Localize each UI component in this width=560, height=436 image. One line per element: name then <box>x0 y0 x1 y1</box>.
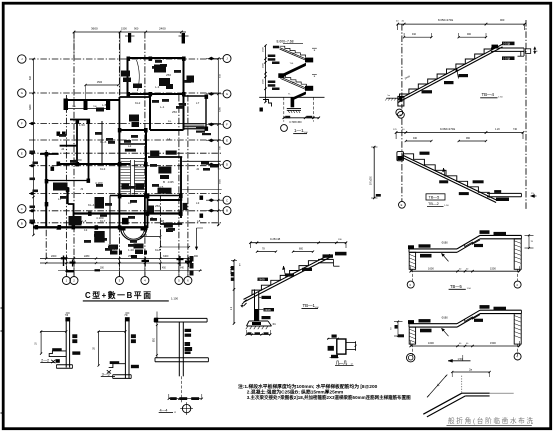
svg-text:1500: 1500 <box>263 78 265 84</box>
svg-text:1500: 1500 <box>263 46 265 52</box>
TB-1 footing hatch <box>246 326 248 329</box>
svg-text:L7: L7 <box>196 101 200 105</box>
svg-text:G: G <box>226 92 228 96</box>
Z-slab detail B left support <box>409 327 415 344</box>
column detail top dim <box>327 338 339 340</box>
Z-slab detail A right corner dim <box>528 235 530 249</box>
left axis circles <box>18 55 26 63</box>
section 4-4 top flange <box>154 317 207 319</box>
svg-text:KL-6: KL-6 <box>100 140 107 144</box>
TB-5 waist slab lines <box>402 155 496 200</box>
Z-slab detail B left corner dim <box>397 322 399 337</box>
TB-4 mid-flight rebar labels <box>459 74 469 77</box>
svg-text:1%: 1% <box>531 193 534 195</box>
Z-slab detail A leader arrow <box>442 253 449 261</box>
svg-text:740: 740 <box>513 128 518 131</box>
upper left small dim line <box>86 84 119 86</box>
plan bottom bold tick marks <box>61 257 67 259</box>
TB-1 sub dimensions <box>257 251 276 253</box>
svg-text:2280: 2280 <box>84 255 90 258</box>
Z-slab detail B right support <box>514 314 521 345</box>
section 3-3 bottom flange <box>113 374 132 376</box>
svg-text:注:1.梯段水平板梯厚度均为100mm; 水平梯梯板配筋均为: 注:1.梯段水平板梯厚度均为100mm; 水平梯梯板配筋均为 [8@200 <box>238 383 378 390</box>
svg-text:B: B <box>163 180 165 184</box>
svg-text:2Φ0B: 2Φ0B <box>265 309 272 312</box>
TB-1 landing rebar labels <box>323 254 334 257</box>
TB-5 rebar labels <box>420 152 430 155</box>
section 3-3 left dimension <box>98 331 126 333</box>
svg-text:0.28×48: 0.28×48 <box>270 237 281 241</box>
svg-text:1500: 1500 <box>490 341 496 345</box>
svg-text:TB—4: TB—4 <box>482 92 495 97</box>
TB-5 top axis circle <box>398 111 405 118</box>
Z-slab detail B slope <box>457 310 480 324</box>
section 1-1 left label blobs <box>268 55 276 58</box>
section 2-2 X tick mark <box>51 360 55 363</box>
plan columns (black blobs) <box>127 57 131 61</box>
svg-text:2—2: 2—2 <box>41 358 49 362</box>
TB-4 top landing slab <box>491 47 524 49</box>
svg-text:7Φ: 7Φ <box>124 314 127 317</box>
left wing sub dimension line <box>65 108 110 110</box>
svg-text:1500: 1500 <box>121 27 127 31</box>
svg-text:3280: 3280 <box>220 106 222 112</box>
section 4-4 middle flange <box>155 357 208 359</box>
lower-left big label clusters <box>69 216 82 226</box>
section 2-2 right labels <box>72 334 77 338</box>
svg-text:B: B <box>21 222 23 226</box>
svg-text:E: E <box>226 139 228 143</box>
top dimension line of plan <box>74 31 186 33</box>
svg-text:G: G <box>21 91 23 95</box>
section 3-3 X tick mark <box>107 370 111 373</box>
section 1-1 flight C slab lines <box>280 77 306 88</box>
svg-text:L-8: L-8 <box>82 219 87 223</box>
floor plan axis grid - vertical dash-dot lines <box>45 150 47 258</box>
left border small ticks <box>1 307 4 309</box>
Z-slab detail B slope steps <box>457 315 480 324</box>
column section detail square <box>337 339 346 354</box>
section 3-3 wall <box>124 321 126 379</box>
svg-text:970x250: 970x250 <box>371 175 373 185</box>
plan right dimension line <box>217 58 219 226</box>
svg-text:4—4: 4—4 <box>160 408 168 412</box>
Z-slab detail A axis circle 4 <box>514 281 521 288</box>
bay window arc at plan bottom <box>121 228 147 240</box>
Z-slab detail B left end block <box>408 320 414 324</box>
Z-slab detail A left slab <box>409 248 457 250</box>
TB-1 wall side labels <box>262 296 272 299</box>
Z-slab detail B bottom axis circle 4 <box>514 353 521 360</box>
svg-text:C: C <box>226 198 228 202</box>
bent bar detail vertical dashed <box>461 376 463 394</box>
column detail bottom label <box>331 355 338 358</box>
TB-5 right slope mark <box>531 195 537 197</box>
TB-4 landing rebar label <box>502 42 515 46</box>
upper wing big label clusters <box>154 65 166 73</box>
svg-text:800: 800 <box>299 248 304 251</box>
Z-slab detail A rebar labels <box>480 230 490 234</box>
Z-slab detail A support dashed axes <box>411 269 413 281</box>
door swing arc in upper wing <box>137 60 140 91</box>
column detail right ties <box>346 342 356 344</box>
svg-text:几—几: 几—几 <box>336 360 348 365</box>
svg-text:3280: 3280 <box>29 104 32 110</box>
section 4-4 left dimension <box>156 322 158 358</box>
TB-4 stair steps <box>400 49 494 99</box>
Z-slab detail A slope steps <box>457 240 480 249</box>
section 1-1 left dimension line <box>265 46 267 103</box>
section 1-1 flight D (thick short) <box>293 92 306 100</box>
section 1-1 flight A slab lines <box>280 48 306 59</box>
svg-text:D: D <box>226 163 228 167</box>
Z-slab detail A bottom dimension <box>411 270 520 272</box>
stair upper landing room wall <box>119 143 146 145</box>
svg-text:1.20: 1.20 <box>128 248 134 252</box>
section 4-4 web <box>178 322 180 376</box>
wall - left wing horizontals <box>70 119 90 121</box>
svg-text:B50: B50 <box>154 337 156 342</box>
TB-5 left vertical dimension line <box>373 147 375 198</box>
TB-1 top landing <box>318 258 334 260</box>
section 1-1 footing <box>287 108 301 110</box>
TB-5 bottom slab <box>487 192 521 194</box>
Z-slab detail B bottom axis circle 1 (double) <box>407 354 415 362</box>
plan right label clusters <box>196 127 205 129</box>
wall - right extension room <box>184 96 207 129</box>
Z-slab detail B bottom dimension <box>411 345 520 347</box>
svg-text:13: 13 <box>84 228 88 232</box>
section 1-1 axis circle <box>281 125 288 132</box>
Z-slab detail B right slab <box>480 309 521 311</box>
svg-text:E: E <box>401 203 403 207</box>
svg-text:J2: J2 <box>196 167 200 171</box>
svg-text:900: 900 <box>500 18 505 22</box>
wall - below-bay room side <box>109 196 111 245</box>
TB-5 sub dimension lines <box>406 140 432 142</box>
section 2-2 step profile <box>49 351 66 357</box>
section 1-1 ground line <box>259 96 324 98</box>
plan bottom dimension lines <box>40 258 192 260</box>
TB-1 mid leader arrow <box>284 266 286 276</box>
svg-text:1500: 1500 <box>490 266 496 270</box>
section 2-2 bottom flange <box>56 364 72 366</box>
stair flight bottom dark blobs <box>121 183 129 189</box>
svg-text:960: 960 <box>466 137 471 140</box>
TB-4 sub dimension lines <box>404 36 431 38</box>
svg-text:3-16@: 3-16@ <box>503 43 511 46</box>
svg-text:B: B <box>226 209 228 213</box>
TB-1 top dimension line <box>250 242 346 244</box>
svg-text:1600: 1600 <box>428 266 434 270</box>
svg-text:2a: 2a <box>469 367 473 371</box>
svg-text:L-3: L-3 <box>155 85 160 89</box>
svg-text:4.005: 4.005 <box>168 181 175 184</box>
svg-text:3—3: 3—3 <box>102 372 110 376</box>
TB-1 wall below flight <box>254 289 256 321</box>
svg-text:2400: 2400 <box>159 27 166 31</box>
svg-text:1500: 1500 <box>97 81 103 84</box>
wall - between left wing and stair core <box>119 96 150 98</box>
svg-text:L2: L2 <box>128 144 132 148</box>
section 1-1 flight C steps <box>280 75 306 86</box>
svg-text:Φ: Φ <box>536 50 538 53</box>
TB-1 footing <box>249 320 268 322</box>
svg-text:Φ1B0: Φ1B0 <box>442 242 449 245</box>
section 1-1 flight B (thick, down-left) <box>280 63 305 78</box>
wall - upper wing partition <box>149 94 151 130</box>
TB-4 axis circle <box>396 109 403 116</box>
svg-text:KL2: KL2 <box>135 101 141 105</box>
svg-text:634: 634 <box>29 75 32 80</box>
TB-4 waist slab lines <box>398 44 503 100</box>
svg-text:J3: J3 <box>80 187 84 191</box>
section 4-4 lower web dashed <box>180 376 182 403</box>
svg-text:TB—2: TB—2 <box>428 202 439 206</box>
Z-slab detail A slope <box>457 235 480 249</box>
svg-text:L8: L8 <box>197 219 201 223</box>
TB-5 title boxed <box>426 194 445 200</box>
TB-1 left dimension line <box>233 260 235 323</box>
bay arc end blocks <box>121 227 126 231</box>
svg-text:2000: 2000 <box>51 255 57 258</box>
left axis diamond ticks <box>30 122 35 125</box>
bottom axis circles <box>62 277 70 285</box>
TB-1 waist slab lines <box>244 254 331 299</box>
svg-text:KL3: KL3 <box>100 167 106 171</box>
section 1-1 bottom dashed verticals <box>283 97 285 121</box>
wall - corridor walls <box>74 212 181 214</box>
svg-text:L3: L3 <box>196 201 200 205</box>
svg-text:TB—5: TB—5 <box>450 284 463 289</box>
svg-text:3.主次梁交接处?梁图板2]18,并加密箍筋2X3道梯梁筋5: 3.主次梁交接处?梁图板2]18,并加密箍筋2X3道梯梁筋50mm连筋网主梯箍筋… <box>247 394 411 401</box>
stair core mid lines <box>121 158 145 160</box>
TB-5 top dimension line <box>396 132 523 134</box>
svg-text:TB—5: TB—5 <box>429 196 440 200</box>
plan mid sub-dimension at 720 <box>141 236 160 238</box>
svg-text:9.066×270&: 9.066×270& <box>440 127 455 131</box>
svg-text:L4: L4 <box>167 137 171 141</box>
floor plan axis grid - horizontal dash-dot lines <box>29 58 222 60</box>
svg-text:L-5: L-5 <box>102 103 107 107</box>
black square left of stair below <box>122 218 129 225</box>
section 1-1 flight B landing blob <box>278 73 284 78</box>
section 4-4 right labels <box>185 329 192 332</box>
plan dense label blobs <box>152 66 159 69</box>
TB-5 top beam block <box>397 152 404 161</box>
Z-slab detail A axis circle 3 <box>407 281 414 288</box>
right margin dash-dot line <box>525 20 527 210</box>
clusters below bay arc <box>109 245 119 250</box>
wall - south center rooms <box>147 196 149 229</box>
TB-4 top dimension line <box>398 23 525 25</box>
Z-slab detail B support dashed axes <box>411 344 413 356</box>
bent bar detail slope dimension <box>428 376 446 397</box>
section 1-1 bottom dimension <box>284 117 319 119</box>
TB-1 stair steps <box>252 261 318 295</box>
section 1-1 left curb <box>263 100 272 107</box>
svg-text:910: 910 <box>412 33 417 36</box>
column detail left label <box>328 346 334 351</box>
svg-text:250: 250 <box>166 73 171 77</box>
TB-4 axis dash-dot line <box>401 24 403 108</box>
svg-text:8.050×270&: 8.050×270& <box>438 18 453 22</box>
svg-text:3600: 3600 <box>91 27 98 31</box>
svg-text:LL: LL <box>168 119 172 123</box>
svg-text:250: 250 <box>172 110 177 114</box>
section 4-4 axis circle <box>182 404 190 412</box>
svg-text:0.708=450: 0.708=450 <box>289 120 302 124</box>
wall - left outer wall <box>45 154 47 227</box>
plan right axis diamond ticks <box>209 57 215 60</box>
svg-text:900: 900 <box>194 255 199 258</box>
svg-text:1.20: 1.20 <box>495 128 500 131</box>
south center label clusters <box>150 151 159 157</box>
svg-text:1:100: 1:100 <box>171 297 178 301</box>
plan bottom small ticks <box>144 251 147 255</box>
svg-text:3400: 3400 <box>163 255 169 258</box>
svg-text:1B: 1B <box>93 347 95 350</box>
bent bar upper slope <box>423 393 462 414</box>
svg-text:940: 940 <box>413 137 418 140</box>
wall - lower left block <box>67 187 69 204</box>
right-side striped text cluster above wall <box>185 123 205 124</box>
right mid tie lines <box>182 160 221 162</box>
stair flight hatch in plan <box>121 161 131 163</box>
svg-text:1600: 1600 <box>428 341 434 345</box>
svg-text:1.50: 1.50 <box>79 123 85 127</box>
svg-text:C: C <box>21 207 23 211</box>
svg-text:E: E <box>400 113 402 117</box>
svg-text:F: F <box>226 123 228 127</box>
svg-text:F: F <box>21 122 23 126</box>
svg-text:8.600~7.68: 8.600~7.68 <box>277 40 294 44</box>
svg-text:J4: J4 <box>61 147 65 151</box>
TB-4 slope leader arrow <box>457 68 459 79</box>
TB-5 mid leader arrow <box>444 168 446 177</box>
TB-5 bottom axis circle <box>399 201 406 208</box>
wall - left wing verticals <box>76 119 78 164</box>
section 1-1 flight A landing blob <box>305 58 313 63</box>
svg-text:1:50: 1:50 <box>458 357 464 361</box>
wall - left wing top wall with columns <box>64 99 119 101</box>
bent bar detail 2a dimension <box>452 371 489 373</box>
svg-text:C型+數一B平面: C型+數一B平面 <box>85 290 153 300</box>
Z-slab detail A right slab <box>480 234 521 236</box>
svg-text:900: 900 <box>467 33 472 36</box>
svg-text:KL-4: KL-4 <box>88 203 95 207</box>
section 1-1 column <box>291 97 295 107</box>
svg-text:7Φ: 7Φ <box>65 314 68 317</box>
plan right axis tie lines <box>206 58 224 60</box>
Z-slab detail B title arrow <box>448 360 471 362</box>
Z-slab detail B left slab <box>409 323 457 325</box>
svg-text:2Φ0B: 2Φ0B <box>259 278 266 281</box>
Z-slab detail A left end block <box>408 245 414 249</box>
svg-text:3600: 3600 <box>220 178 222 184</box>
section 3-3 right labels <box>131 334 136 338</box>
TB-1 footing bottom dimension <box>247 334 271 336</box>
svg-text:1500: 1500 <box>263 62 265 68</box>
wall - upper wing room <box>128 58 184 94</box>
section 1-1 flight A steps <box>280 46 306 57</box>
TB-1 mid rebar labels <box>258 278 269 281</box>
bent bar lower horizontal <box>465 395 489 397</box>
svg-text:KL8: KL8 <box>155 248 161 252</box>
section 2-2 wall <box>65 321 67 368</box>
plan right-bottom leader arrow and labels <box>196 228 198 250</box>
plan left dimension line <box>33 59 35 235</box>
section 2-2 top tick block <box>65 317 70 321</box>
svg-text:250: 250 <box>155 204 160 208</box>
svg-text:E: E <box>21 151 23 155</box>
TB-5 axis dash-dot line <box>401 118 403 201</box>
plan right-bottom sub dim <box>160 246 189 248</box>
stair core walls extending to bay <box>118 196 120 228</box>
top column markers <box>128 33 131 43</box>
section 4-4 bottom dims <box>169 398 202 400</box>
right axis circles <box>223 55 231 63</box>
TB-5 descending steps <box>403 154 489 198</box>
svg-text:Φ1B0: Φ1B0 <box>442 317 449 320</box>
section 1-1 flight C landing blob <box>305 86 313 91</box>
svg-text:Φ8: Φ8 <box>160 219 164 223</box>
section 1-1 top-left label blob <box>273 46 279 49</box>
svg-text:L-1: L-1 <box>160 105 165 109</box>
TB-4 bottom column <box>398 96 404 106</box>
bottom axis leader dashes <box>65 256 67 276</box>
bent bar upper horizontal <box>462 392 490 394</box>
wall - stair core <box>119 130 146 196</box>
TB-4 landing end piece and height tick <box>525 49 530 54</box>
svg-text:L-2: L-2 <box>160 167 165 171</box>
TB-1 left hook arrow <box>242 300 247 307</box>
svg-text:1-16@: 1-16@ <box>503 57 511 60</box>
svg-text:J2: J2 <box>150 207 154 211</box>
section 2-2 left dimension <box>40 331 66 333</box>
svg-text:900: 900 <box>134 27 139 31</box>
section 3-3 step profile <box>109 364 126 368</box>
Z-slab detail B rebar labels <box>480 305 490 309</box>
svg-text:2550: 2550 <box>128 255 134 258</box>
TB-4 ground tick line <box>386 97 399 99</box>
bent bar lower slope <box>427 396 466 417</box>
section 3-3 top tick block <box>125 317 130 321</box>
Z-slab detail A left support <box>409 252 415 269</box>
Z-slab detail B leader arrow <box>442 328 449 336</box>
svg-text:般折角(台阶临凿水布洗: 般折角(台阶临凿水布洗 <box>448 416 535 425</box>
Z-slab detail A right support <box>514 239 521 269</box>
